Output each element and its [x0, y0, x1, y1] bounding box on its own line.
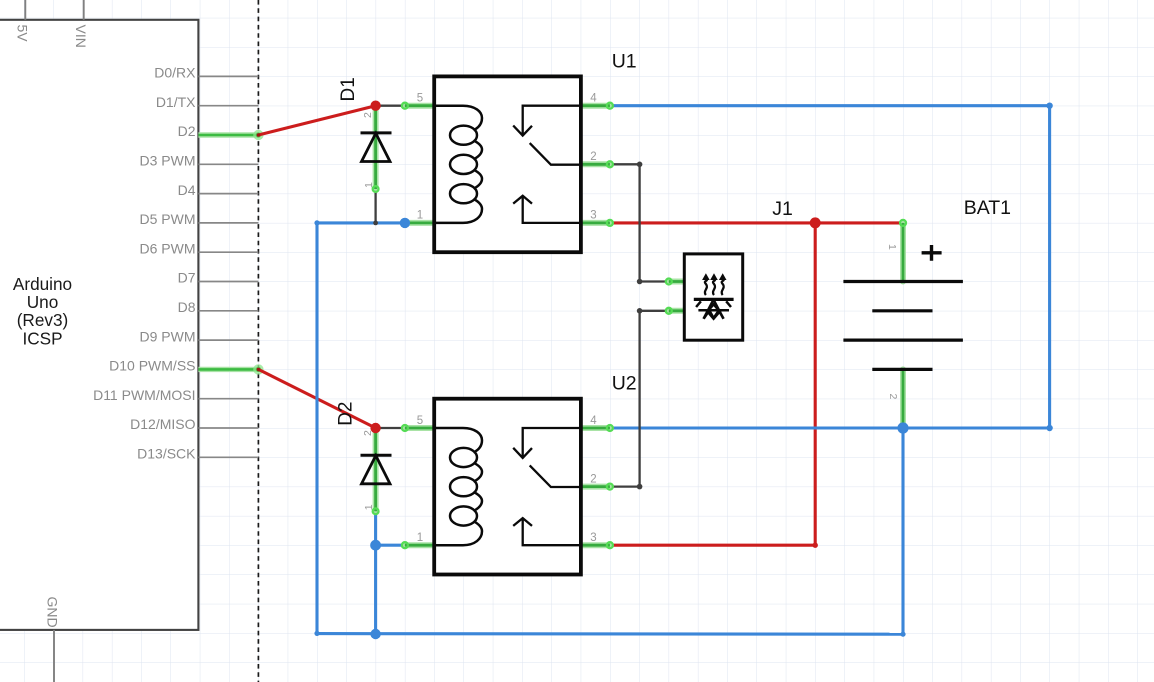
wire green D10 — [198, 367, 258, 372]
svg-text:D3 PWM: D3 PWM — [140, 153, 196, 169]
dot red D2 — [370, 423, 380, 433]
dashed boundary line — [257, 0, 259, 682]
svg-text:D6 PWM: D6 PWM — [140, 240, 196, 256]
separator bar — [694, 298, 734, 301]
pin 2 stub — [579, 161, 610, 167]
pin 2 stub — [900, 369, 906, 428]
svg-text:2: 2 — [590, 151, 596, 163]
plates — [843, 280, 963, 283]
svg-text:U1: U1 — [612, 50, 637, 72]
svg-text:1: 1 — [363, 182, 375, 188]
terminal D2 — [253, 130, 263, 140]
svg-text:D10 PWM/SS: D10 PWM/SS — [109, 358, 195, 374]
wire blue D2 diode down — [374, 511, 377, 634]
svg-text:GND: GND — [45, 597, 61, 628]
wire gray U1 pin2 to peltier — [610, 164, 669, 281]
diode D1 — [361, 106, 392, 192]
dot blue bottom junction — [370, 629, 380, 639]
dot red D10 wire end — [257, 368, 261, 372]
svg-text:D1: D1 — [338, 77, 359, 101]
svg-text:D11 PWM/MOSI: D11 PWM/MOSI — [93, 387, 195, 403]
svg-text:1: 1 — [417, 532, 423, 544]
svg-text:4: 4 — [590, 93, 597, 105]
svg-text:D13/SCK: D13/SCK — [137, 446, 196, 462]
dot blue U2 junction — [370, 540, 381, 551]
pin 2 stub — [669, 308, 685, 314]
battery BAT1 — [843, 220, 963, 428]
terminals — [666, 279, 672, 285]
dot blue bottom right — [900, 632, 905, 637]
pin D8 — [198, 310, 258, 312]
relay body — [434, 76, 581, 252]
dot gray D1 bottom — [373, 221, 378, 226]
pin D6 PWM — [198, 251, 258, 253]
pin 1 stub — [405, 220, 436, 226]
pin VIN stub — [83, 0, 85, 20]
svg-text:4: 4 — [590, 415, 597, 427]
svg-text:1: 1 — [363, 504, 375, 510]
pin D4 — [198, 193, 258, 195]
pin 1 stub — [405, 542, 436, 548]
wire blue to U1 pin1 — [317, 221, 405, 224]
wire blue U1 pin4 right — [610, 104, 1050, 107]
svg-text:3: 3 — [590, 210, 596, 222]
svg-text:2: 2 — [362, 112, 374, 118]
svg-text:BAT1: BAT1 — [964, 197, 1011, 219]
pin numbers — [417, 93, 598, 222]
wire green D2 — [198, 132, 258, 137]
switch — [513, 428, 579, 545]
pin 5 stub — [405, 425, 436, 431]
dot blue right end — [1046, 425, 1052, 431]
terminals — [402, 425, 408, 431]
svg-text:1: 1 — [886, 244, 898, 250]
pin D13/SCK — [198, 456, 258, 458]
svg-text:ICSP: ICSP — [22, 328, 62, 348]
pin D0/RX — [198, 75, 258, 77]
dot red D2 wire end — [257, 133, 261, 137]
svg-text:D5 PWM: D5 PWM — [140, 211, 196, 227]
pin 5 stub — [405, 103, 436, 109]
wire blue bottom run — [317, 632, 903, 636]
svg-text:3: 3 — [590, 532, 596, 544]
svg-text:5: 5 — [417, 415, 423, 427]
coil — [436, 106, 482, 223]
svg-text:J1: J1 — [772, 198, 793, 220]
svg-text:D1/TX: D1/TX — [156, 94, 196, 110]
pin 3 stub — [579, 220, 610, 226]
wire red D10 to D2 diode — [258, 369, 375, 428]
wire blue right down — [1048, 106, 1051, 428]
svg-text:5V: 5V — [15, 25, 31, 43]
wire gray D1 link — [376, 105, 405, 107]
wire blue U2 pin4 row — [610, 426, 1050, 429]
svg-text:2: 2 — [590, 473, 596, 485]
Arduino pin stubs D0-D13 — [198, 76, 258, 457]
dot gray U2 pin2 corner — [637, 484, 643, 490]
relay body — [434, 399, 581, 575]
dot blue top right corner — [1046, 103, 1052, 109]
plus sign — [922, 245, 942, 261]
wire gray D1 bottom drop — [374, 189, 376, 223]
pin D9 PWM — [198, 339, 258, 341]
svg-text:D7: D7 — [178, 270, 196, 286]
wire blue left vertical — [315, 223, 318, 634]
svg-text:VIN: VIN — [73, 25, 89, 48]
pin 2 stub — [579, 484, 610, 490]
Arduino name text — [13, 274, 72, 348]
pin D7 — [198, 281, 258, 283]
peltier module — [666, 254, 743, 340]
coil — [436, 428, 482, 545]
svg-text:D2: D2 — [178, 123, 196, 139]
svg-text:D4: D4 — [178, 182, 196, 198]
pin 5V stub — [24, 0, 26, 20]
pin 4 stub — [579, 425, 610, 431]
wire gray peltier to U2 pin2 — [610, 311, 669, 487]
wire red to U2 pin3 — [610, 544, 815, 547]
svg-text:(Rev3): (Rev3) — [17, 310, 69, 330]
relay U1 — [402, 76, 613, 252]
pin GND stub — [53, 630, 55, 682]
dot red J1 — [810, 217, 821, 228]
pin 3 stub — [579, 542, 610, 548]
svg-text:Uno: Uno — [27, 292, 59, 312]
wire blue to U2 pin1 — [376, 544, 405, 547]
switch — [513, 106, 579, 223]
dot gray peltier2 corner — [637, 308, 643, 314]
wire red J1 down — [814, 223, 817, 545]
svg-text:D8: D8 — [178, 299, 196, 315]
pin D1/TX — [198, 105, 258, 107]
dot red D1 — [370, 101, 380, 111]
Arduino Uno box — [0, 20, 198, 630]
terminal D10 — [253, 364, 263, 374]
pin 4 stub — [579, 103, 610, 109]
Arduino pin labels — [93, 65, 196, 462]
wire gray D2 link — [376, 427, 405, 429]
dot gray peltier1 corner — [637, 279, 643, 285]
pin 1 stub — [900, 223, 906, 282]
pin D11 PWM/MOSI — [198, 398, 258, 400]
dot blue battery junction — [897, 422, 908, 433]
dot blue U1 pin1 — [400, 218, 410, 228]
svg-text:5: 5 — [417, 93, 423, 105]
relay U2 — [402, 399, 613, 575]
dot gray U1 pin2 corner — [637, 162, 643, 168]
svg-text:1: 1 — [417, 210, 423, 222]
wire red U1 pin3 to battery — [610, 221, 903, 224]
pin D12/MISO — [198, 427, 258, 429]
svg-text:D0/RX: D0/RX — [154, 65, 196, 81]
svg-text:2: 2 — [887, 394, 899, 400]
pin D3 PWM — [198, 163, 258, 165]
pin 1 stub — [669, 279, 685, 285]
diode D2 — [361, 428, 392, 514]
svg-text:D2: D2 — [336, 402, 357, 426]
svg-text:D12/MISO: D12/MISO — [130, 416, 195, 432]
svg-text:Arduino: Arduino — [13, 274, 72, 294]
dot red corner — [813, 543, 818, 548]
terminals — [402, 103, 408, 109]
dot blue corner left top — [314, 220, 319, 225]
snowflake — [696, 300, 731, 319]
svg-text:U2: U2 — [612, 373, 637, 395]
pin numbers — [417, 415, 598, 544]
svg-text:D9 PWM: D9 PWM — [140, 328, 196, 344]
wire red D2 to D1 diode — [258, 106, 375, 135]
pin D5 PWM — [198, 222, 258, 224]
dot blue corner left bottom — [314, 631, 319, 636]
wire blue battery down — [901, 428, 904, 634]
heat arrows — [705, 278, 724, 295]
